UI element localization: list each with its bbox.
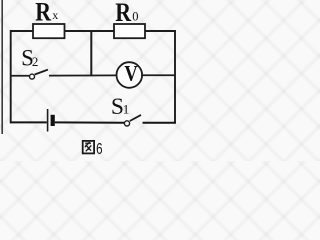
caption 图6	[83, 141, 94, 154]
svg-text:R: R	[35, 0, 51, 27]
wire: bottom rail right segment	[143, 122, 177, 124]
wire: bottom rail left segment	[10, 121, 47, 123]
wire: left rail	[10, 30, 12, 123]
battery short thick plate	[51, 115, 55, 126]
switch S2 lever	[35, 70, 48, 75]
svg-text:2: 2	[32, 54, 39, 69]
switch S1 lever	[130, 115, 141, 121]
wire: top rail left segment	[10, 30, 34, 32]
svg-text:6: 6	[96, 141, 102, 158]
wire: middle vertical junction wire	[90, 31, 92, 76]
wire: S2 stub from left rail	[11, 75, 30, 77]
switch S2 contact circle	[30, 74, 35, 79]
svg-text:0: 0	[132, 9, 138, 23]
switch S1 contact circle	[124, 121, 129, 126]
svg-text:x: x	[52, 8, 58, 22]
wire: bottom rail battery to S1	[55, 121, 125, 123]
wire: right rail	[174, 30, 176, 123]
resistor Rx	[33, 24, 65, 38]
wire: middle wire from S2 to voltmeter	[49, 74, 117, 76]
svg-text:V: V	[124, 60, 137, 85]
svg-text:1: 1	[123, 102, 130, 117]
stray page border line	[1, 0, 3, 134]
wire: voltmeter to right rail	[141, 74, 175, 76]
svg-text:R: R	[115, 0, 131, 27]
battery long plate	[47, 109, 49, 132]
resistor R0	[114, 24, 145, 38]
wire: top rail between Rx and R0	[64, 30, 115, 32]
voltmeter V	[117, 62, 143, 88]
wire: top rail right segment	[144, 30, 176, 32]
